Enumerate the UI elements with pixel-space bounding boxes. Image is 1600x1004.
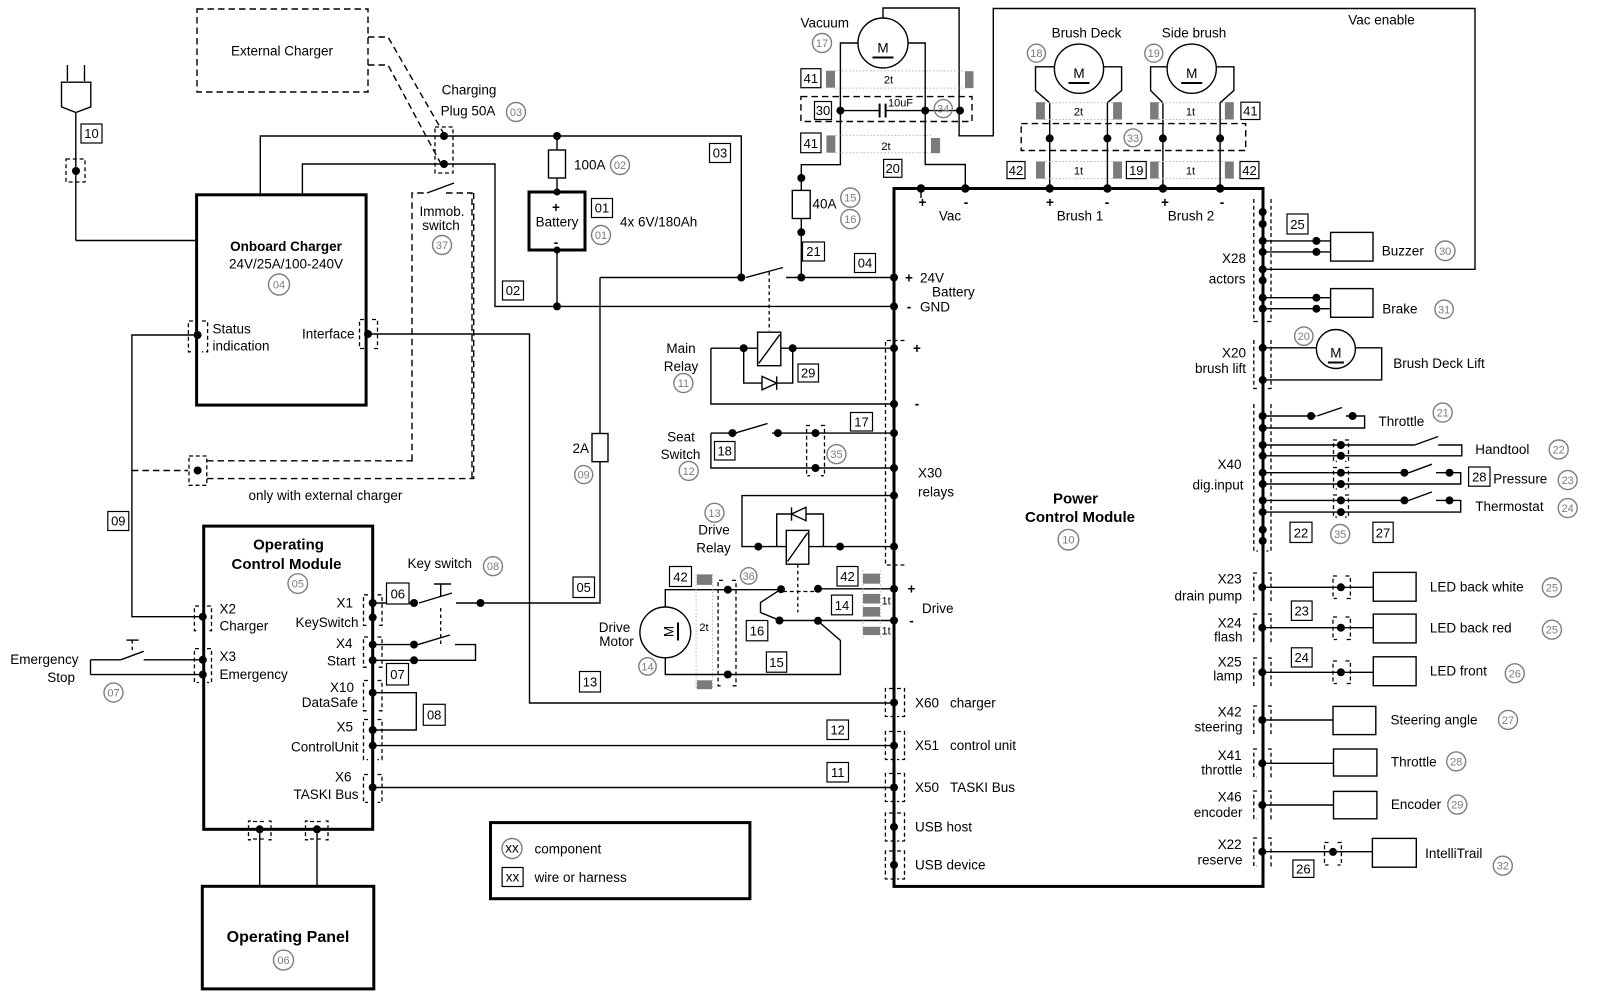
component ref circle 25 [1542, 620, 1561, 639]
wire harness label 10 [81, 124, 102, 143]
dashed link battery switch to main relay coil [768, 272, 770, 331]
svg-text:X42: X42 [1218, 705, 1242, 720]
component ref circle 16 [841, 210, 860, 229]
wires OCM to Operating Panel [259, 829, 261, 886]
vacuum harness lower channel 2t [826, 135, 940, 153]
svg-text:Brush Deck: Brush Deck [1052, 26, 1122, 41]
svg-text:41: 41 [804, 71, 818, 86]
svg-text:16: 16 [750, 624, 764, 639]
component ref circle 04 [269, 274, 290, 295]
svg-text:17: 17 [854, 415, 868, 430]
svg-text:IntelliTrail: IntelliTrail [1425, 846, 1482, 861]
component ref circle 07 [104, 683, 123, 702]
svg-text:19: 19 [1129, 163, 1143, 178]
svg-text:31: 31 [1438, 304, 1450, 316]
wire/harness label box 11 [827, 763, 849, 783]
svg-text:X28: X28 [1222, 251, 1246, 266]
svg-text:Throttle: Throttle [1391, 755, 1437, 770]
svg-text:02: 02 [614, 160, 626, 172]
svg-text:+: + [1046, 195, 1054, 210]
component ref circle 26 [1505, 664, 1524, 683]
svg-text:04: 04 [273, 280, 285, 292]
svg-text:36: 36 [743, 571, 755, 583]
label box 25 [1287, 214, 1308, 234]
label box 29 [798, 364, 819, 382]
pressure switch row [1263, 464, 1548, 489]
svg-text:DataSafe: DataSafe [302, 695, 358, 710]
svg-text:08: 08 [487, 561, 499, 573]
svg-text:X10: X10 [330, 680, 354, 695]
wire drive motor - lead return [665, 621, 840, 675]
svg-text:11: 11 [678, 378, 689, 390]
wire riser to key switch with fuse 2A [456, 278, 608, 604]
svg-text:Key switch: Key switch [408, 556, 473, 571]
svg-text:flash: flash [1214, 630, 1243, 645]
label box 03 [710, 144, 731, 163]
start switch X4 loop [373, 635, 476, 664]
svg-text:24: 24 [1562, 503, 1574, 515]
component ref circle 22 [1549, 440, 1568, 459]
label box 18 [715, 442, 736, 461]
svg-text:xx: xx [505, 841, 519, 856]
svg-text:Drive: Drive [599, 620, 631, 635]
component ref circle 27 [1499, 710, 1518, 729]
svg-text:Handtool: Handtool [1475, 442, 1529, 457]
component ref circle 05 [288, 574, 308, 594]
Operating Control Module box [204, 526, 373, 829]
svg-text:02: 02 [506, 283, 520, 298]
svg-text:Relay: Relay [664, 359, 699, 374]
svg-text:wire or harness: wire or harness [534, 870, 628, 885]
svg-text:12: 12 [683, 466, 695, 478]
wire external charger stub 2 (dashed) [368, 65, 441, 164]
svg-text:30: 30 [816, 103, 830, 118]
svg-text:Start: Start [327, 654, 356, 669]
Brush Deck Lift motor [1263, 330, 1485, 380]
connector Interface [360, 320, 378, 349]
svg-text:Pressure: Pressure [1493, 472, 1547, 487]
svg-text:X60: X60 [915, 696, 939, 711]
svg-text:32: 32 [1497, 861, 1509, 873]
svg-text:-: - [1105, 195, 1110, 210]
svg-text:steering: steering [1194, 720, 1242, 735]
svg-text:Interface: Interface [302, 327, 355, 342]
Emergency Stop switch [10, 640, 203, 685]
svg-text:brush lift: brush lift [1195, 361, 1246, 376]
svg-text:4x 6V/180Ah: 4x 6V/180Ah [620, 214, 697, 229]
svg-text:lamp: lamp [1213, 669, 1242, 684]
svg-text:actors: actors [1209, 272, 1246, 287]
svg-text:M: M [662, 626, 677, 637]
svg-text:Vacuum: Vacuum [801, 16, 850, 31]
drive relay diode [777, 507, 824, 546]
svg-text:05: 05 [292, 579, 304, 591]
wire/harness label box 28 [1469, 467, 1490, 486]
svg-text:42: 42 [1242, 163, 1256, 178]
label box 42 left [1007, 162, 1025, 179]
fuse 40A [792, 174, 836, 278]
svg-text:drain pump: drain pump [1174, 589, 1242, 604]
svg-text:2t: 2t [881, 141, 890, 153]
wire -Drive to PCM [780, 620, 895, 622]
svg-text:ControlUnit: ControlUnit [291, 740, 359, 755]
svg-text:Operating Panel: Operating Panel [227, 929, 350, 946]
svg-text:34: 34 [937, 104, 949, 116]
svg-text:LED back white: LED back white [1430, 580, 1524, 595]
component ref circle 28 [1447, 752, 1466, 771]
svg-text:Battery: Battery [536, 215, 579, 230]
svg-text:X25: X25 [1218, 655, 1242, 670]
vacuum harness upper channel 2t [826, 71, 974, 88]
connector X3 Emergency [194, 649, 211, 683]
PCM left connectors X60 X51 X50 USB [885, 689, 1016, 880]
svg-text:indication: indication [213, 339, 270, 354]
svg-text:+: + [552, 200, 560, 215]
svg-text:09: 09 [578, 470, 590, 482]
svg-text:35: 35 [1334, 529, 1346, 541]
svg-text:40A: 40A [813, 197, 837, 212]
svg-text:05: 05 [576, 580, 590, 595]
Immob. switch (dashed harness box) [412, 183, 472, 479]
label box 09 [108, 512, 129, 531]
wire/harness label box 12 [827, 720, 849, 740]
svg-text:X20: X20 [1222, 346, 1246, 361]
wire vacuum motor top to vac-enable riser [883, 8, 1475, 269]
svg-text:Buzzer: Buzzer [1382, 243, 1425, 258]
svg-text:27: 27 [1502, 715, 1514, 727]
svg-text:42: 42 [840, 569, 854, 584]
svg-text:Battery: Battery [932, 285, 975, 300]
label box 26 [1293, 860, 1314, 877]
wire +Drive to PCM [818, 588, 894, 590]
drive motor [599, 607, 691, 658]
svg-text:Steering angle: Steering angle [1391, 713, 1478, 728]
dashed wire only-with-external-charger [132, 470, 188, 472]
wire 08 DataSafe loop X10 to X5 [373, 693, 417, 730]
wire 12 X5 to X51 [373, 745, 894, 747]
component ref circle 33 [1124, 129, 1142, 147]
svg-text:1t: 1t [1186, 107, 1195, 119]
X22 reserve row / IntelliTrail [1197, 837, 1482, 868]
svg-text:X3: X3 [220, 649, 237, 664]
thermostat switch row [1263, 492, 1544, 517]
label box 05 [573, 577, 595, 598]
component ref circle 34 [934, 100, 952, 118]
svg-text:26: 26 [1509, 668, 1521, 680]
label box 02 [503, 281, 524, 300]
svg-text:22: 22 [1294, 525, 1308, 540]
wire charge return [302, 164, 894, 306]
svg-text:Operating: Operating [253, 537, 324, 554]
svg-text:18: 18 [1030, 48, 1042, 60]
component ref circle 06 [274, 950, 294, 970]
svg-text:09: 09 [111, 514, 125, 529]
svg-text:Main: Main [666, 341, 695, 356]
component ref circle 12 [679, 461, 698, 480]
svg-text:LED back red: LED back red [1430, 621, 1512, 636]
svg-text:Side brush: Side brush [1162, 26, 1227, 41]
svg-text:TASKI Bus: TASKI Bus [950, 780, 1015, 795]
svg-text:28: 28 [1472, 469, 1486, 484]
svg-text:15: 15 [844, 193, 856, 205]
label box 41 upper [801, 69, 821, 88]
svg-text:1t: 1t [882, 626, 891, 638]
svg-text:Vac: Vac [939, 209, 962, 224]
svg-text:30: 30 [1439, 246, 1451, 258]
component ref circle 36 [741, 568, 757, 584]
svg-text:23: 23 [1562, 475, 1574, 487]
component ref circle 18 [1027, 44, 1045, 62]
svg-text:Control Module: Control Module [232, 556, 342, 573]
AC mains plug [62, 65, 91, 113]
Brush Deck motor M 18 [1036, 26, 1122, 189]
X40 dig.input connector [1192, 404, 1271, 551]
svg-text:-: - [964, 195, 969, 210]
wire status indication to X2 [132, 335, 203, 617]
svg-text:Thermostat: Thermostat [1475, 499, 1544, 514]
label box 24 [1291, 648, 1312, 667]
drive harness channel 2t [696, 574, 713, 689]
component ref circle 25 [1542, 578, 1561, 597]
wire mains to Onboard Charger [76, 240, 197, 242]
svg-text:42: 42 [673, 570, 687, 585]
component ref circle 32 [1493, 856, 1512, 875]
label boxes 22 35 27 [1290, 522, 1312, 542]
svg-text:X2: X2 [220, 602, 237, 617]
label box 14 [832, 595, 853, 615]
svg-text:Status: Status [213, 322, 252, 337]
connector 35 on seat wires [807, 426, 825, 476]
X28 actors connector [1209, 199, 1271, 322]
svg-text:reserve: reserve [1197, 853, 1242, 868]
svg-text:2t: 2t [884, 75, 893, 87]
brush harness upper channels [1036, 102, 1234, 119]
svg-text:37: 37 [436, 240, 448, 252]
svg-text:01: 01 [595, 201, 609, 216]
svg-text:X51: X51 [915, 738, 939, 753]
wire 05 interface to X60 charger [368, 334, 894, 703]
svg-text:charger: charger [950, 696, 996, 711]
X41 throttle row [1201, 748, 1436, 778]
svg-text:Onboard Charger: Onboard Charger [230, 239, 343, 254]
svg-text:03: 03 [510, 107, 522, 119]
connector X4 Start [364, 637, 383, 667]
svg-text:2A: 2A [572, 441, 589, 456]
component ref circle 01 [592, 226, 611, 245]
connector X5 ControlUnit [364, 720, 383, 760]
handtool switch row [1263, 437, 1530, 462]
svg-text:only with external charger: only with external charger [249, 488, 403, 503]
connector X6 TASKI Bus [364, 775, 383, 803]
key switch [373, 556, 485, 646]
bus terminals on PCM top edge [917, 184, 1225, 198]
svg-text:23: 23 [1294, 604, 1308, 619]
svg-text:19: 19 [1148, 48, 1160, 60]
brush harness lower channels [1036, 162, 1234, 179]
svg-text:throttle: throttle [1201, 763, 1242, 778]
External Charger (dashed box) [197, 9, 368, 92]
svg-text:X5: X5 [336, 720, 353, 735]
svg-text:07: 07 [390, 667, 404, 682]
svg-text:06: 06 [277, 955, 289, 967]
fuse 100A [549, 132, 606, 192]
wire/harness label box 30 [815, 102, 832, 120]
label box 04 [855, 254, 876, 273]
component ref circle 15 [841, 188, 860, 207]
svg-text:control unit: control unit [950, 738, 1016, 753]
component ref circle 14 [639, 658, 656, 675]
svg-text:X46: X46 [1218, 790, 1242, 805]
svg-text:Stop: Stop [47, 670, 75, 685]
wire vacuum motor left lead [801, 43, 858, 178]
component ref circle 17 [813, 34, 832, 53]
svg-text:Brush Deck Lift: Brush Deck Lift [1393, 356, 1485, 371]
svg-text:Emergency: Emergency [10, 652, 79, 667]
svg-text:10uF: 10uF [888, 98, 913, 110]
component ref circle 11 [674, 374, 693, 393]
main relay diode [744, 348, 793, 390]
svg-text:25: 25 [1546, 625, 1558, 637]
svg-text:USB host: USB host [915, 820, 972, 835]
svg-text:switch: switch [422, 218, 460, 233]
svg-text:USB device: USB device [915, 858, 986, 873]
component ref circle 23 [1558, 471, 1577, 490]
label box 13 [580, 672, 601, 693]
svg-text:26: 26 [1296, 862, 1310, 877]
X42 steering row [1194, 705, 1477, 735]
svg-text:Control Module: Control Module [1025, 509, 1135, 526]
svg-text:24: 24 [1294, 650, 1308, 665]
wire external charger stub 1 (dashed) [368, 37, 444, 134]
svg-text:X22: X22 [1218, 837, 1242, 852]
component ref circle 29 [1448, 795, 1467, 814]
Vacuum motor M 17 [801, 16, 909, 69]
svg-text:Charging: Charging [442, 83, 497, 98]
svg-text:X40: X40 [1217, 457, 1241, 472]
svg-text:-: - [915, 397, 920, 412]
label box 19 [1126, 162, 1146, 179]
svg-text:Power: Power [1053, 491, 1098, 508]
svg-text:M: M [1330, 346, 1341, 361]
drive relay contact (chevron) [728, 585, 822, 625]
svg-text:41: 41 [1243, 104, 1257, 119]
svg-text:22: 22 [1553, 445, 1565, 457]
component ref circle 03 [507, 103, 526, 122]
X30 connector bracket [886, 341, 905, 566]
wire/harness label box 08 [423, 704, 445, 725]
label box 42 right [1240, 162, 1259, 179]
svg-text:X50: X50 [915, 780, 939, 795]
svg-text:06: 06 [391, 587, 405, 602]
label box 07 [387, 664, 409, 686]
svg-text:X1: X1 [336, 596, 353, 611]
main relay [664, 332, 898, 408]
svg-text:14: 14 [835, 598, 849, 613]
svg-text:12: 12 [830, 723, 844, 738]
svg-text:Immob.: Immob. [419, 204, 464, 219]
component ref circle 09 [575, 466, 593, 484]
connector X10 DataSafe [364, 681, 383, 711]
svg-text:17: 17 [816, 38, 828, 50]
X23 drain pump row / LED back white [1174, 572, 1523, 604]
svg-text:Encoder: Encoder [1391, 797, 1442, 812]
svg-text:Emergency: Emergency [220, 667, 289, 682]
X24 flash row / LED back red [1214, 614, 1512, 645]
connector Status indication [188, 321, 207, 352]
svg-text:11: 11 [831, 765, 845, 780]
svg-text:29: 29 [801, 366, 815, 381]
component ref circle 21 [1433, 403, 1452, 422]
svg-text:Plug 50A: Plug 50A [441, 104, 496, 119]
legend box [491, 823, 750, 899]
svg-text:Vac enable: Vac enable [1348, 13, 1415, 28]
svg-text:M: M [1073, 66, 1084, 81]
label box 41 right [1241, 102, 1260, 119]
svg-text:Switch: Switch [661, 447, 701, 462]
OCM bottom connectors [249, 821, 272, 840]
component ref circle 35 [1331, 525, 1350, 544]
connector X1 KeySwitch [364, 595, 383, 626]
svg-text:relays: relays [918, 485, 954, 500]
Side brush motor M 19 [1151, 26, 1234, 189]
component ref circle 30 [1435, 241, 1455, 261]
svg-text:03: 03 [713, 146, 727, 161]
drive-PCM harness channel 1t 1t [863, 570, 891, 640]
svg-text:33: 33 [1127, 133, 1139, 145]
svg-text:Throttle: Throttle [1379, 414, 1425, 429]
svg-text:+: + [905, 271, 913, 286]
X25 lamp row / LED front [1213, 655, 1487, 686]
charging plug connector [435, 127, 453, 173]
svg-text:Brake: Brake [1382, 302, 1417, 317]
svg-text:Relay: Relay [696, 541, 731, 556]
dotted actuator drive relay to contact [797, 564, 799, 612]
X20 brush lift connector [1195, 340, 1271, 389]
svg-text:Brush 1: Brush 1 [1057, 209, 1104, 224]
svg-text:X41: X41 [1218, 748, 1242, 763]
svg-text:X24: X24 [1218, 616, 1243, 631]
svg-text:24V/25A/100-240V: 24V/25A/100-240V [229, 257, 343, 272]
component ref circle 35 [827, 445, 846, 464]
drive relay [696, 492, 898, 565]
Power Control Module box [894, 189, 1263, 887]
svg-text:KeySwitch: KeySwitch [295, 615, 358, 630]
connector on mains lead [66, 159, 85, 182]
wire battery minus to GND bus [556, 250, 558, 306]
svg-text:M: M [1186, 66, 1197, 81]
connector 36 on drive motor leads [718, 580, 736, 685]
svg-text:Charger: Charger [220, 619, 269, 634]
svg-text:Motor: Motor [599, 634, 634, 649]
svg-text:LED front: LED front [1430, 664, 1487, 679]
svg-text:dig.input: dig.input [1192, 478, 1243, 493]
svg-text:Seat: Seat [667, 430, 695, 445]
label box 42 drive right [837, 567, 858, 587]
svg-text:13: 13 [708, 508, 720, 520]
dashed harness box 33 [1021, 124, 1245, 151]
svg-text:15: 15 [769, 655, 783, 670]
svg-text:2t: 2t [699, 622, 708, 634]
component ref circle 24 [1558, 499, 1577, 518]
seat switch [661, 424, 898, 473]
svg-text:08: 08 [427, 708, 441, 723]
svg-text:+: + [908, 582, 916, 597]
svg-text:TASKI Bus: TASKI Bus [293, 787, 358, 802]
X46 encoder row [1194, 790, 1442, 821]
wire vacuum motor right lead [908, 43, 965, 189]
wire/harness label box 01 [592, 199, 613, 218]
Buzzer [1331, 232, 1373, 261]
